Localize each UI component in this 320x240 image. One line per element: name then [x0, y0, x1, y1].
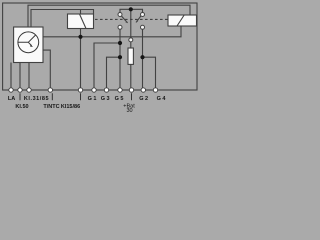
svg-text:G 1: G 1: [88, 96, 97, 102]
svg-text:G 3: G 3: [101, 96, 110, 102]
svg-text:30: 30: [126, 108, 132, 114]
svg-text:G 5: G 5: [115, 96, 124, 102]
svg-text:Kl15/86: Kl15/86: [61, 104, 80, 110]
svg-text:Kl.31/85: Kl.31/85: [24, 96, 49, 102]
svg-text:G 2: G 2: [139, 96, 148, 102]
svg-text:Kl.50: Kl.50: [15, 104, 28, 110]
svg-text:G 4: G 4: [157, 96, 167, 102]
svg-text:T/NTC: T/NTC: [43, 104, 59, 110]
svg-text:LA: LA: [8, 96, 15, 102]
